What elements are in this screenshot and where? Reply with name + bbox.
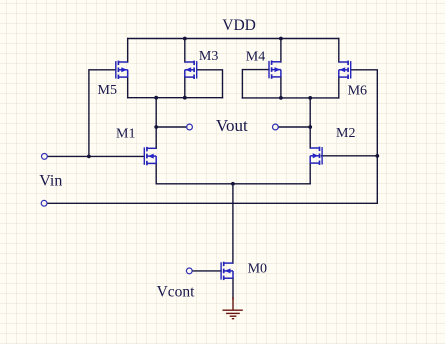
svg-text:M6: M6 — [348, 83, 367, 98]
wire VDD rail — [128, 38, 339, 40]
terminal Vcont — [186, 268, 192, 274]
wire node A horizontal — [128, 97, 223, 99]
junction tail — [231, 182, 235, 186]
junction Vin+ M5 gate — [87, 155, 91, 159]
transistor M3 — [185, 61, 197, 79]
wire M6 source down — [338, 77, 340, 98]
wire M1 source down — [155, 163, 157, 183]
terminal left output — [187, 124, 193, 130]
wire node A to M1 drain — [155, 98, 157, 149]
terminal Vin+ — [42, 154, 48, 160]
svg-text:Vout: Vout — [216, 116, 248, 135]
junction node B right — [308, 96, 312, 100]
svg-text:M5: M5 — [98, 83, 117, 98]
svg-text:M4: M4 — [246, 49, 265, 64]
terminal Vout — [273, 124, 279, 130]
wire rail to M4 drain — [280, 39, 282, 63]
junction rail-M3 — [183, 37, 187, 41]
wire M3 gate loop — [197, 70, 223, 98]
junction left output — [154, 125, 158, 129]
junction Vout — [308, 125, 312, 129]
svg-text:M3: M3 — [199, 49, 218, 64]
svg-text:Vin: Vin — [39, 172, 62, 189]
wire tail — [156, 183, 310, 185]
wire left output stub — [156, 126, 186, 128]
wire M0 source to ground — [232, 278, 234, 299]
wire M5 source down — [127, 77, 129, 98]
wire Vout stub — [278, 126, 310, 128]
junction rail-M4 — [279, 37, 283, 41]
wire M2 source down — [309, 163, 311, 184]
junction M2 gate — [375, 154, 379, 158]
wire Vin+ to M1 gate — [48, 155, 145, 157]
transistor M5 — [116, 61, 128, 79]
wire M5 gate to input — [89, 70, 116, 157]
transistor M2 — [310, 147, 322, 165]
wire rail to M3 drain — [184, 39, 186, 63]
wire M6 gate to right rail — [351, 70, 378, 204]
transistor M4 — [269, 60, 281, 78]
transistor M6 — [339, 61, 351, 79]
svg-text:Vcont: Vcont — [157, 284, 196, 301]
junction node A M3 — [183, 96, 187, 100]
junction node B M4 — [279, 96, 283, 100]
wire rail to M6 drain — [338, 39, 340, 63]
ground — [223, 297, 243, 319]
wire rail to M5 drain — [127, 39, 129, 63]
wire tail to M0 drain — [232, 184, 234, 263]
wire Vcont to M0 gate — [192, 270, 221, 272]
svg-text:VDD: VDD — [222, 17, 256, 34]
terminal Vin- — [41, 200, 47, 206]
wire M2 gate to right rail — [321, 155, 377, 157]
wire node B horizontal — [242, 97, 338, 99]
svg-text:M2: M2 — [336, 126, 355, 141]
wire M3 source down — [184, 77, 186, 98]
svg-text:M0: M0 — [248, 261, 267, 276]
wire node B to M2 drain — [309, 98, 311, 148]
transistor M0 — [221, 262, 233, 280]
wire M4 source down — [280, 77, 282, 98]
wire M4 gate loop — [242, 70, 269, 98]
svg-text:M1: M1 — [116, 126, 135, 141]
junction node A left — [154, 96, 158, 100]
wire Vin- line — [47, 202, 377, 204]
transistor M1 — [144, 147, 156, 165]
